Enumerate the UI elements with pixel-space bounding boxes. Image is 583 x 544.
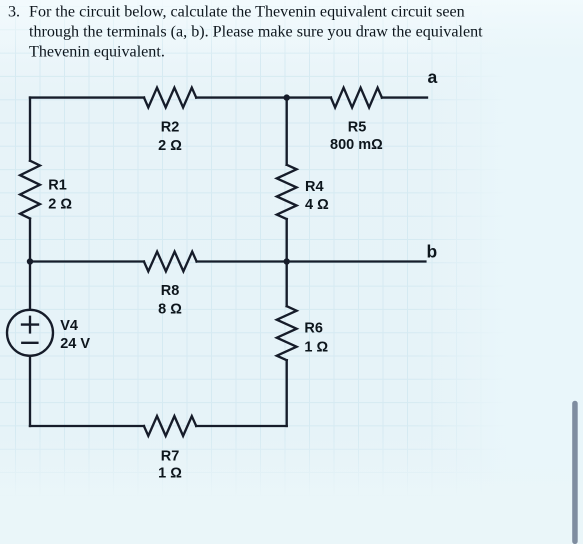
svg-text:R8: R8 — [161, 283, 180, 299]
svg-text:through the terminals (a, b).: through the terminals (a, b). Please mak… — [29, 24, 483, 41]
svg-text:a: a — [428, 67, 438, 87]
svg-text:For the circuit below, calcula: For the circuit below, calculate the The… — [29, 4, 465, 21]
svg-text:4 Ω: 4 Ω — [305, 197, 329, 213]
svg-text:R6: R6 — [304, 321, 323, 337]
svg-text:R5: R5 — [348, 120, 367, 136]
svg-text:R4: R4 — [305, 179, 324, 195]
svg-text:1 Ω: 1 Ω — [304, 339, 328, 355]
svg-text:24 V: 24 V — [60, 336, 90, 352]
svg-text:2 Ω: 2 Ω — [48, 197, 72, 213]
svg-text:1 Ω: 1 Ω — [158, 466, 182, 482]
svg-text:R1: R1 — [48, 178, 67, 194]
svg-text:3.: 3. — [8, 4, 20, 21]
svg-text:800 mΩ: 800 mΩ — [330, 137, 383, 153]
svg-text:R7: R7 — [161, 449, 180, 465]
svg-text:Thevenin equivalent.: Thevenin equivalent. — [29, 44, 165, 61]
svg-text:R2: R2 — [161, 120, 180, 136]
svg-text:b: b — [427, 242, 438, 262]
svg-text:V4: V4 — [60, 318, 78, 334]
svg-text:8 Ω: 8 Ω — [158, 302, 182, 318]
svg-text:2 Ω: 2 Ω — [158, 138, 182, 154]
